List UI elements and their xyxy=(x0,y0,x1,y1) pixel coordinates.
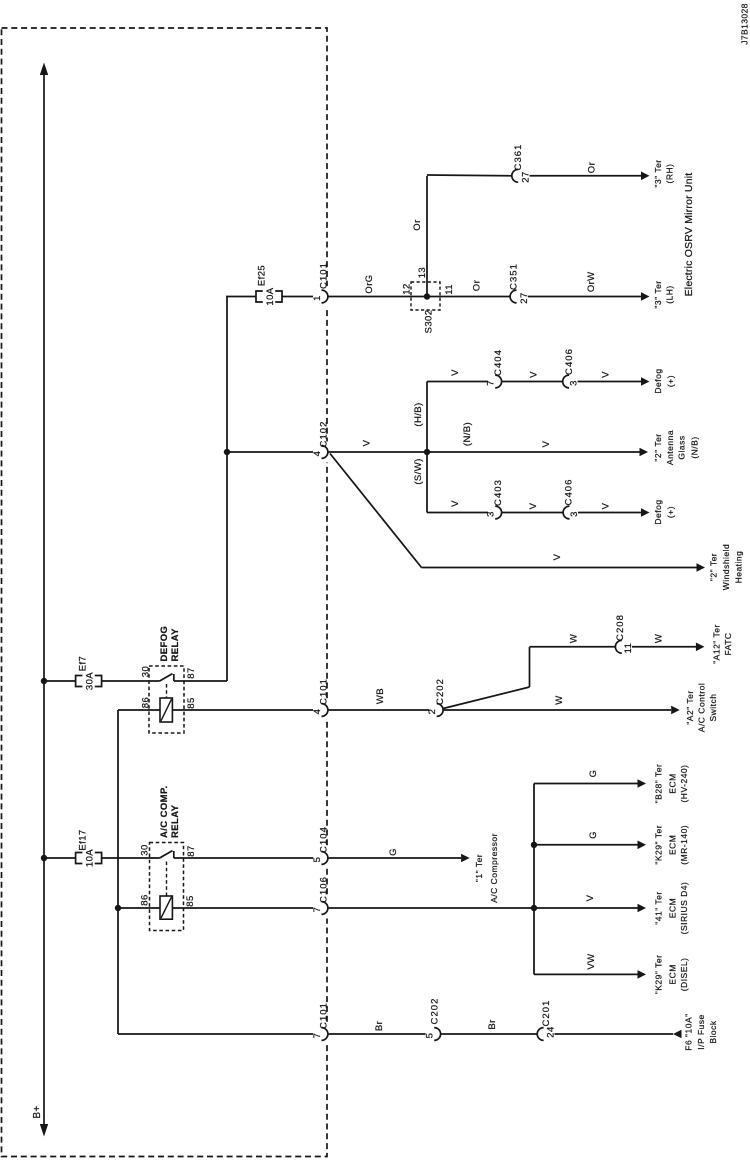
connector C101 pin 4 xyxy=(324,700,329,721)
svg-text:Or: Or xyxy=(587,162,598,173)
svg-text:C361: C361 xyxy=(513,144,524,171)
svg-text:B+: B+ xyxy=(32,1105,43,1118)
svg-text:87: 87 xyxy=(186,667,197,678)
branch vertical (H/B)/(S/W) xyxy=(426,382,428,513)
wire Ef25 to connector C101 pin 1 xyxy=(282,296,313,298)
svg-text:Ef17: Ef17 xyxy=(78,829,89,850)
junction riser/C102 branch xyxy=(224,449,230,455)
svg-text:C208: C208 xyxy=(615,614,626,641)
svg-text:"B28" Ter: "B28" Ter xyxy=(654,764,664,804)
connector C404 pin 7 xyxy=(495,375,501,388)
svg-text:85: 85 xyxy=(186,697,197,708)
connector C406 pin 3 (H/B) xyxy=(563,375,569,388)
svg-text:30A: 30A xyxy=(84,672,95,690)
svg-text:Glass: Glass xyxy=(676,435,686,459)
connector C202 pin 5 xyxy=(434,1028,440,1041)
svg-text:Switch: Switch xyxy=(708,693,718,721)
svg-text:"3" Ter: "3" Ter xyxy=(653,159,663,187)
arrow to mirror RH xyxy=(641,172,650,181)
wire FATC jog vertical xyxy=(529,647,531,687)
splice S302 (dashed box) xyxy=(411,282,440,310)
svg-text:C104: C104 xyxy=(319,826,330,853)
svg-text:S302: S302 xyxy=(424,310,435,334)
svg-text:(S/W): (S/W) xyxy=(413,458,424,484)
svg-text:"1" Ter: "1" Ter xyxy=(474,854,484,882)
svg-text:W: W xyxy=(654,634,665,643)
junction coil riser / A/C relay 86 xyxy=(115,905,121,911)
relay DEFOG RELAY (dashed outline) xyxy=(149,666,184,733)
connector C361 pin 27 xyxy=(512,169,518,182)
svg-text:V: V xyxy=(529,371,540,378)
wire V C106 to ECM branch xyxy=(328,907,638,909)
svg-text:ECM: ECM xyxy=(667,898,677,918)
svg-text:G: G xyxy=(588,770,599,778)
connector C351 pin 27 xyxy=(510,290,516,303)
arrow to defog (+) (H/B) xyxy=(641,377,650,386)
svg-text:3: 3 xyxy=(486,511,497,517)
connector C208 pin 11 xyxy=(615,640,621,653)
svg-text:C102: C102 xyxy=(319,421,330,448)
svg-text:(DISEL): (DISEL) xyxy=(679,958,689,992)
svg-text:2: 2 xyxy=(427,709,438,715)
svg-text:"2" Ter: "2" Ter xyxy=(708,553,718,581)
svg-text:(LH): (LH) xyxy=(665,285,675,304)
junction ECM branch (41) xyxy=(531,905,537,911)
wire Ef17 to A/C relay pin 30 xyxy=(102,857,160,859)
svg-text:(HV-240): (HV-240) xyxy=(679,764,689,802)
wire W jog to C208 xyxy=(530,646,616,648)
svg-text:RELAY: RELAY xyxy=(170,628,181,662)
svg-text:WB: WB xyxy=(375,688,386,704)
svg-text:ECM: ECM xyxy=(667,773,677,793)
wire V C102 to branch junction xyxy=(328,451,640,453)
svg-text:C403: C403 xyxy=(493,479,504,506)
svg-text:10A: 10A xyxy=(265,287,276,305)
connector C406 pin 3 (S/W) xyxy=(563,506,569,519)
wire riser to connector C102 xyxy=(227,451,313,453)
svg-text:27: 27 xyxy=(519,292,530,303)
connector C403 pin 3 xyxy=(495,506,501,519)
svg-text:"3" Ter: "3" Ter xyxy=(653,280,663,308)
svg-text:4: 4 xyxy=(312,451,323,457)
svg-text:"A2" Ter: "A2" Ter xyxy=(685,690,695,724)
svg-text:C406: C406 xyxy=(564,479,575,506)
svg-text:(N/B): (N/B) xyxy=(690,436,700,458)
svg-text:V: V xyxy=(601,502,612,509)
arrow to mirror LH xyxy=(641,292,650,301)
svg-text:5: 5 xyxy=(312,857,323,863)
svg-text:85: 85 xyxy=(185,895,196,906)
arrow to windshield heating xyxy=(697,563,706,572)
wire branch to C403 xyxy=(427,512,488,514)
wire OrW C351 to mirror LH xyxy=(528,296,642,298)
svg-text:RELAY: RELAY xyxy=(170,804,181,838)
wire V C406 to defog(+) xyxy=(578,381,642,383)
svg-text:5: 5 xyxy=(425,1033,436,1039)
svg-text:C101: C101 xyxy=(319,678,330,705)
svg-text:Electric OSRV Mirror Unit: Electric OSRV Mirror Unit xyxy=(683,173,695,297)
svg-text:Block: Block xyxy=(708,1020,718,1044)
svg-text:Br: Br xyxy=(487,1019,498,1029)
wire G to ECM HV-240 xyxy=(534,783,638,785)
connector C201 pin 24 xyxy=(537,1028,543,1041)
svg-text:87: 87 xyxy=(186,845,197,856)
arrow to ECM DISEL xyxy=(638,970,647,979)
wire Br C202 to C201 xyxy=(441,1033,538,1035)
svg-text:C404: C404 xyxy=(493,349,504,376)
svg-text:V: V xyxy=(450,369,461,376)
wire OrG C101 to splice S302 xyxy=(328,296,510,298)
wire WB C101 to C202 xyxy=(328,709,429,711)
wire RH branch to C361 xyxy=(427,174,512,177)
svg-text:Ef25: Ef25 xyxy=(257,265,268,286)
svg-text:DEFOG: DEFOG xyxy=(159,626,170,662)
svg-text:"K29" Ter: "K29" Ter xyxy=(654,955,664,995)
svg-text:Defog: Defog xyxy=(653,499,663,524)
ECM branch vertical xyxy=(533,784,535,975)
svg-text:W: W xyxy=(554,695,565,704)
svg-text:V: V xyxy=(450,500,461,507)
arrow to A/C control switch xyxy=(671,706,680,715)
svg-text:"41" Ter: "41" Ter xyxy=(654,891,664,925)
svg-text:C101: C101 xyxy=(319,1002,330,1029)
svg-text:C106: C106 xyxy=(319,876,330,903)
svg-text:C101: C101 xyxy=(319,262,330,289)
svg-text:J7B13028: J7B13028 xyxy=(740,3,750,44)
svg-text:ECM: ECM xyxy=(667,835,677,855)
svg-text:(SIRIUS D4): (SIRIUS D4) xyxy=(679,882,689,935)
svg-text:"A12" Ter: "A12" Ter xyxy=(712,624,722,664)
connector C106 pin 7 xyxy=(324,898,329,919)
svg-text:"2" Ter: "2" Ter xyxy=(653,433,663,461)
A/C relay control dashed link xyxy=(166,862,168,897)
svg-text:V: V xyxy=(528,502,539,509)
svg-text:C202: C202 xyxy=(430,998,441,1025)
wire A/C coil 85 to C106 xyxy=(172,907,313,909)
junction ECM branch (MR-140) xyxy=(531,842,537,848)
svg-text:Windshield: Windshield xyxy=(721,544,731,591)
wire A/C relay 87 to C104 xyxy=(174,857,313,859)
svg-text:(MR-140): (MR-140) xyxy=(679,825,689,865)
svg-text:7: 7 xyxy=(312,907,323,913)
wire W C208 to FATC xyxy=(632,646,696,648)
svg-text:1: 1 xyxy=(312,295,323,301)
wire riser to A/C relay coil 86 xyxy=(118,907,160,909)
arrow to ECM MR-140 xyxy=(638,841,647,850)
A/C relay coil xyxy=(160,896,172,919)
junction defog branch xyxy=(424,449,430,455)
svg-text:G: G xyxy=(388,848,399,856)
svg-text:Br: Br xyxy=(374,1021,385,1031)
svg-text:Ef7: Ef7 xyxy=(78,656,89,671)
wire Ef7 to defog relay pin 30 xyxy=(102,680,160,682)
svg-text:C202: C202 xyxy=(435,678,446,705)
connector C202 pin 2 xyxy=(437,704,443,717)
wire V C406 to defog(+) lower xyxy=(578,512,642,514)
svg-text:Defog: Defog xyxy=(653,368,663,393)
svg-text:(+): (+) xyxy=(666,375,676,387)
wire Or C361 to mirror RH xyxy=(530,175,642,177)
svg-text:OrG: OrG xyxy=(364,274,375,293)
defog relay control dashed link xyxy=(166,684,168,698)
svg-text:86: 86 xyxy=(141,697,152,708)
fuse/relay block boundary (dashed box) xyxy=(2,28,328,1157)
connector C101 pin 7 xyxy=(324,1024,329,1045)
svg-text:(H/B): (H/B) xyxy=(413,402,424,426)
relay A/C COMP. RELAY (dashed outline) xyxy=(150,843,184,931)
wire C201 to I/P fuse block xyxy=(555,1033,674,1035)
svg-text:V: V xyxy=(552,553,563,560)
svg-text:C406: C406 xyxy=(564,348,575,375)
svg-text:C201: C201 xyxy=(541,1000,552,1027)
B+ battery bus wire (vertical) xyxy=(43,66,45,1130)
svg-text:FATC: FATC xyxy=(723,632,733,655)
svg-text:Heating: Heating xyxy=(734,551,744,584)
connector C104 pin 5 xyxy=(324,848,329,869)
wire G to ECM MR-140 xyxy=(534,844,638,846)
riser wire to Ef25 branch xyxy=(226,296,228,681)
arrow to defog (+) (S/W) xyxy=(641,508,650,517)
arrow to A/C compressor xyxy=(461,854,470,863)
wire V C404 to C406 xyxy=(502,381,563,383)
wire VW to ECM DISEL xyxy=(534,973,638,975)
svg-text:4: 4 xyxy=(312,709,323,715)
wire riser corner to C101 pin 7 xyxy=(118,1033,313,1035)
svg-text:10A: 10A xyxy=(84,849,95,867)
svg-text:A/C Compressor: A/C Compressor xyxy=(489,833,499,903)
defog relay coil xyxy=(160,698,172,722)
A/C relay switch blade 30-87 xyxy=(160,851,173,858)
svg-text:Antenna: Antenna xyxy=(665,430,675,465)
svg-text:11: 11 xyxy=(444,284,455,295)
svg-text:A/C COMP.: A/C COMP. xyxy=(159,785,170,838)
wire defog relay 87 to riser xyxy=(174,680,227,682)
wire diagonal C202 to FATC jog xyxy=(443,687,529,709)
arrow to FATC xyxy=(696,643,705,652)
wire diagonal C102 to windshield run xyxy=(330,454,422,568)
splice S302 junction xyxy=(424,293,430,299)
wire G C104 to compressor xyxy=(328,857,461,859)
svg-text:27: 27 xyxy=(521,171,532,182)
arrow to ECM HV-240 xyxy=(638,779,647,788)
arrow to ECM SIRIUS D4 xyxy=(638,904,647,913)
svg-text:W: W xyxy=(568,634,579,643)
svg-text:7: 7 xyxy=(312,1033,323,1039)
svg-text:V: V xyxy=(362,439,373,446)
svg-text:"K29" Ter: "K29" Ter xyxy=(654,825,664,865)
svg-text:Or: Or xyxy=(412,219,423,230)
connector C102 pin 4 xyxy=(324,442,329,463)
wire riser to defog relay coil 86 xyxy=(118,709,160,711)
svg-text:(+): (+) xyxy=(666,506,676,518)
svg-text:ECM: ECM xyxy=(667,964,677,984)
wire branch to C404 xyxy=(427,381,488,383)
wire S302 up to RH branch xyxy=(426,176,428,297)
svg-text:V: V xyxy=(585,894,596,901)
svg-text:VW: VW xyxy=(586,953,597,969)
svg-text:(RH): (RH) xyxy=(665,164,675,184)
svg-text:Or: Or xyxy=(472,280,483,291)
junction bus/Ef17 xyxy=(41,855,47,861)
svg-text:G: G xyxy=(588,831,599,839)
wire bus to fuse Ef7 xyxy=(44,680,76,682)
wire riser corner to fuse Ef25 xyxy=(226,296,256,298)
connector C101 pin 1 xyxy=(324,286,329,307)
fuse Ef25 10A xyxy=(256,291,263,302)
wire coil-feed riser (86 side) xyxy=(117,710,119,1034)
svg-text:86: 86 xyxy=(140,894,151,905)
fuse Ef17 10A xyxy=(76,853,83,864)
svg-text:12: 12 xyxy=(402,283,413,294)
arrowhead up (bus continuation) xyxy=(40,63,48,76)
arrowhead down (B+ feed) xyxy=(40,1124,48,1137)
svg-text:A/C Control: A/C Control xyxy=(696,683,706,732)
svg-text:V: V xyxy=(541,440,552,447)
svg-text:30: 30 xyxy=(141,666,152,677)
defog relay switch blade 30-87 xyxy=(160,674,173,681)
svg-text:11: 11 xyxy=(623,643,634,654)
svg-text:(N/B): (N/B) xyxy=(462,422,473,446)
wire bus to fuse Ef17 xyxy=(44,857,76,859)
svg-text:30: 30 xyxy=(140,844,151,855)
svg-text:OrW: OrW xyxy=(586,271,597,292)
wire W C202 to A/C control switch xyxy=(443,709,671,711)
junction bus/Ef7 xyxy=(41,678,47,684)
wire Br C101 to C202 xyxy=(328,1033,426,1035)
wire V to windshield heating xyxy=(422,567,697,569)
svg-text:C351: C351 xyxy=(508,263,519,290)
svg-text:F6 "10A": F6 "10A" xyxy=(683,1013,693,1050)
fuse Ef7 30A xyxy=(76,676,83,687)
wire defog coil 85 to C101 pin 4 xyxy=(172,709,313,711)
svg-text:I/P Fuse: I/P Fuse xyxy=(696,1014,706,1050)
svg-text:7: 7 xyxy=(486,380,497,386)
svg-text:V: V xyxy=(601,371,612,378)
arrow from F6 I/P fuse block (feed) xyxy=(673,1030,682,1039)
wire V C403 to C406 xyxy=(502,512,564,514)
arrow to antenna glass xyxy=(640,448,649,457)
svg-text:24: 24 xyxy=(546,1026,557,1037)
